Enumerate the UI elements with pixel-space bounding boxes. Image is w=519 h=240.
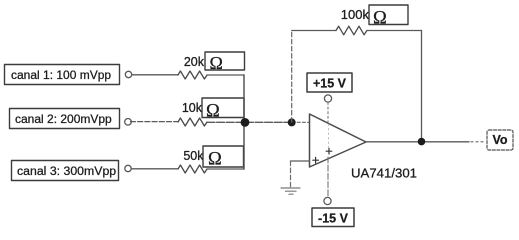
svg-text:Ω: Ω: [210, 53, 223, 73]
wire feedback left vertical: [291, 31, 293, 123]
svg-text:Ω: Ω: [373, 9, 387, 29]
R2 ohm box: [202, 98, 244, 122]
ground: [281, 188, 300, 194]
wire power through op-amp: [327, 124, 329, 150]
wire canal3 to R3: [132, 168, 179, 170]
svg-text:20k: 20k: [184, 55, 205, 69]
wire canal1 to R1: [132, 74, 178, 76]
resistor R2 zigzag: [178, 118, 207, 126]
resistor R1 zigzag: [178, 71, 207, 79]
op-amp plus input mark: [313, 157, 319, 163]
supply -15V box: [312, 208, 354, 227]
source box canal 2: [10, 109, 120, 129]
wire R2 to node A: [207, 121, 292, 123]
junction node A: [288, 118, 296, 126]
svg-text:10k: 10k: [182, 101, 203, 115]
supply +15V pin circle: [324, 95, 331, 102]
wire summing bus vertical: [243, 75, 245, 169]
R1 ohm box: [205, 52, 245, 73]
wire +15V to op-amp: [327, 103, 329, 123]
junction output node: [418, 138, 426, 146]
svg-text:+15 V: +15 V: [313, 77, 347, 91]
svg-text:UA741/301: UA741/301: [351, 166, 417, 181]
wire node A to op-amp input: [292, 121, 310, 123]
op-amp U1: [310, 114, 367, 167]
svg-text:canal 1: 100 mVpp: canal 1: 100 mVpp: [11, 68, 111, 82]
svg-text:Vo: Vo: [492, 133, 507, 147]
resistor R3 zigzag: [178, 165, 207, 173]
wire R1 to summing bus: [207, 74, 244, 76]
junction bus node: [241, 118, 250, 127]
svg-text:Ω: Ω: [206, 102, 220, 122]
source box canal 3: [12, 161, 119, 181]
Rf ohm box: [369, 5, 408, 29]
wire op-amp output: [366, 141, 469, 143]
wire feedback top left: [292, 30, 336, 32]
supply +15V box: [307, 73, 352, 92]
wire -15V to op-amp: [327, 157, 329, 197]
R3 ohm box: [203, 146, 244, 170]
wire op-amp plus input to ground: [291, 160, 310, 162]
output box Vo: [487, 130, 513, 150]
svg-text:-15 V: -15 V: [318, 212, 349, 226]
wire feedback right vertical: [421, 31, 423, 142]
wire feedback top right: [367, 30, 422, 32]
svg-text:canal 3: 300mVpp: canal 3: 300mVpp: [17, 164, 116, 178]
source box canal 1: [5, 65, 120, 85]
svg-text:canal 2: 200mVpp: canal 2: 200mVpp: [15, 112, 112, 126]
svg-text:50k: 50k: [183, 149, 204, 163]
supply -15V pin circle: [324, 197, 331, 204]
terminal circle canal 3: [125, 165, 131, 171]
terminal circle canal 2: [125, 119, 132, 126]
resistor Rf zigzag: [336, 26, 367, 35]
svg-text:Ω: Ω: [208, 150, 222, 170]
svg-text:100k: 100k: [341, 7, 370, 22]
op-amp plus supply mark: [326, 148, 332, 154]
wire output to Vo dotted: [471, 141, 485, 143]
wire R3 to summing bus: [207, 168, 244, 170]
wire canal2 to R2: [131, 121, 179, 123]
terminal circle canal 1: [125, 71, 131, 77]
